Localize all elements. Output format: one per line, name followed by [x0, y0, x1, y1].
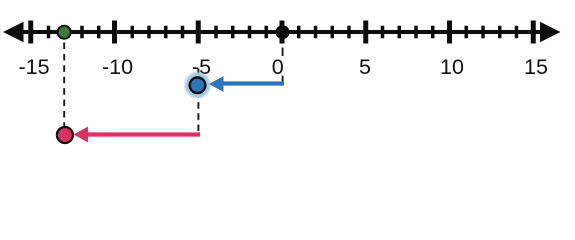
tick -2	[248, 26, 252, 39]
tick 0 (major)	[280, 21, 285, 44]
tick 9	[431, 26, 435, 39]
dashed line at 0, dash below label	[282, 76, 284, 82]
black origin point at 0	[277, 26, 289, 38]
svg-text:-15: -15	[18, 55, 49, 79]
tick -5 (major)	[196, 21, 201, 44]
green point at -13	[58, 26, 71, 39]
tick -6	[181, 26, 185, 39]
tick 5 (major)	[363, 21, 368, 44]
tick 13	[498, 26, 502, 39]
tick -1	[265, 26, 269, 39]
svg-text:0: 0	[272, 55, 284, 79]
tick 7	[398, 26, 402, 39]
tick -13	[64, 26, 68, 39]
tick -10 (major)	[112, 21, 117, 44]
blue point halo at -5	[184, 71, 212, 99]
left arrowhead	[3, 22, 24, 43]
number line main axis	[8, 30, 555, 34]
tick -11	[97, 26, 101, 39]
tick 6	[381, 26, 385, 39]
red arrow (-5 to -13)	[87, 132, 201, 136]
tick 4	[347, 26, 351, 39]
tick -3	[231, 26, 235, 39]
svg-text:15: 15	[524, 55, 548, 79]
tick -12	[80, 26, 84, 39]
tick 15 (major)	[531, 21, 536, 44]
right arrowhead	[540, 22, 561, 43]
tick -4	[214, 26, 218, 39]
tick 10 (major)	[447, 21, 452, 44]
dashed line at -13 (green dot to pink circle)	[63, 43, 65, 127]
dashed line at -5 (blue circle to red arrow)	[197, 69, 199, 132]
tick -9	[131, 26, 135, 39]
tick 8	[414, 26, 418, 39]
tick 3	[331, 26, 335, 39]
tick 1	[297, 26, 301, 39]
tick -8	[147, 26, 151, 39]
blue point at -5	[190, 77, 206, 93]
svg-text:10: 10	[440, 55, 464, 79]
tick 14	[515, 26, 519, 39]
tick 12	[481, 26, 485, 39]
tick -7	[164, 26, 168, 39]
svg-text:-10: -10	[102, 55, 133, 79]
svg-text:5: 5	[359, 55, 371, 79]
tick -14	[47, 26, 51, 39]
tick 11	[465, 26, 469, 39]
tick -15 (major)	[28, 21, 33, 44]
pink point at -13	[57, 127, 73, 143]
tick 2	[314, 26, 318, 39]
blue arrow (0 to -5)	[222, 81, 285, 85]
dashed line at 0, dash above label	[282, 48, 284, 57]
